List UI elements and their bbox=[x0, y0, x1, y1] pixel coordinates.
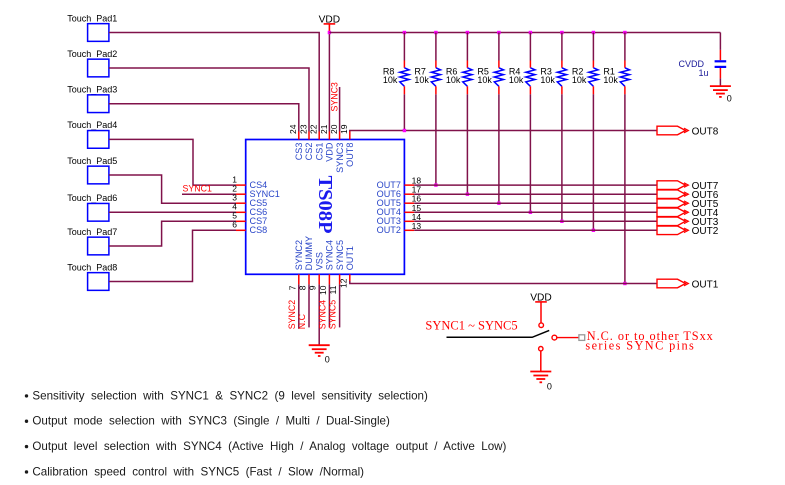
junction R7 bottom bbox=[434, 183, 437, 186]
connector OUT1 bbox=[657, 279, 686, 288]
no-connect square bbox=[579, 335, 585, 341]
wire R7 bottom to OUT net bbox=[435, 94, 437, 185]
wire OUT5 to connector bbox=[414, 202, 657, 204]
junction R4 top at VDD rail bbox=[529, 31, 532, 34]
touch pad TP4 square bbox=[88, 131, 109, 149]
svg-text:VDD: VDD bbox=[325, 142, 335, 162]
junction R1 bottom bbox=[623, 282, 626, 285]
resistor R2 bbox=[589, 68, 598, 87]
bullet note 3 bbox=[25, 445, 28, 448]
pin 19 stub bbox=[349, 132, 351, 140]
touch pad TP2 square bbox=[88, 59, 109, 77]
junction R1 top at VDD rail bbox=[623, 31, 626, 34]
junction R5 bottom bbox=[497, 202, 500, 205]
svg-text:SYNC3: SYNC3 bbox=[329, 82, 339, 111]
svg-text:SYNC1: SYNC1 bbox=[183, 184, 212, 194]
R5 pin top bbox=[498, 61, 500, 68]
R1 pin top bbox=[624, 61, 626, 68]
svg-text:10k: 10k bbox=[603, 75, 618, 85]
wire Touch_Pad3 to CS3 (pin24) bbox=[109, 104, 299, 132]
wire switch pole to N.C. bbox=[557, 337, 579, 339]
svg-text:10k: 10k bbox=[414, 75, 429, 85]
R3 pin top bbox=[561, 61, 563, 68]
R6 pin bottom bbox=[466, 86, 468, 94]
wire pin9 VSS to ground bbox=[318, 284, 320, 345]
wire OUT3 to connector bbox=[414, 220, 657, 222]
svg-text:SYNC4: SYNC4 bbox=[317, 300, 327, 329]
svg-text:SYNC5: SYNC5 bbox=[328, 300, 338, 329]
svg-text:10k: 10k bbox=[509, 75, 524, 85]
svg-text:N.C: N.C bbox=[297, 313, 307, 329]
pin 16 stub bbox=[404, 202, 414, 204]
junction R6 bottom bbox=[466, 193, 469, 196]
junction R3 top at VDD rail bbox=[560, 31, 563, 34]
wire pin8 N.C stub bbox=[308, 284, 310, 327]
svg-text:23: 23 bbox=[298, 124, 308, 134]
svg-text:OUT1: OUT1 bbox=[692, 279, 719, 290]
svg-text:DUMMY: DUMMY bbox=[304, 236, 314, 270]
svg-text:Sensitivity selection with: Sensitivity selection with SYNC1 & SYNC2… bbox=[32, 389, 428, 402]
svg-text:VSS: VSS bbox=[314, 252, 324, 270]
ground VSS bbox=[309, 344, 330, 346]
wire R6 top bbox=[466, 33, 468, 61]
svg-text:SYNC1 ~ SYNC5: SYNC1 ~ SYNC5 bbox=[425, 319, 517, 333]
svg-text:Touch_Pad6: Touch_Pad6 bbox=[67, 193, 117, 203]
svg-text:TS08P: TS08P bbox=[314, 176, 336, 234]
svg-text:21: 21 bbox=[319, 124, 329, 134]
wire R5 top bbox=[498, 33, 500, 61]
junction R5 top at VDD rail bbox=[497, 31, 500, 34]
svg-text:24: 24 bbox=[288, 124, 298, 134]
svg-text:Output mode selection with: Output mode selection with SYNC3 (Single… bbox=[32, 415, 390, 428]
svg-text:Output level selection with: Output level selection with SYNC4 (Activ… bbox=[32, 440, 506, 453]
pin 24 stub bbox=[298, 132, 300, 140]
svg-text:OUT2: OUT2 bbox=[692, 226, 719, 237]
junction R2 top at VDD rail bbox=[592, 31, 595, 34]
svg-text:CS2: CS2 bbox=[304, 143, 314, 161]
svg-text:0: 0 bbox=[547, 381, 552, 391]
svg-text:Touch_Pad7: Touch_Pad7 bbox=[67, 227, 117, 237]
junction R8 top at VDD rail bbox=[403, 31, 406, 34]
wire capacitor to ground bbox=[719, 78, 721, 85]
svg-text:10k: 10k bbox=[477, 75, 492, 85]
junction R4 bottom bbox=[529, 211, 532, 214]
svg-text:19: 19 bbox=[339, 124, 349, 134]
wire Touch_Pad5 to CS5 (pin3) bbox=[109, 175, 236, 203]
resistor R4 bbox=[526, 68, 535, 87]
bullet note 4 bbox=[25, 470, 28, 473]
R1 pin bottom bbox=[624, 86, 626, 94]
pin 2 stub bbox=[236, 193, 246, 195]
connector OUT4 bbox=[657, 208, 686, 217]
svg-text:CS1: CS1 bbox=[314, 143, 324, 161]
junction R7 top at VDD rail bbox=[434, 31, 437, 34]
resistor R7 bbox=[431, 68, 440, 87]
resistor R3 bbox=[557, 68, 566, 87]
wire SYNC3 stub to pin20 bbox=[339, 87, 341, 132]
junction R6 top at VDD rail bbox=[466, 31, 469, 34]
svg-text:10k: 10k bbox=[540, 75, 555, 85]
pin 23 stub bbox=[308, 132, 310, 140]
wire R5 bottom to OUT net bbox=[498, 94, 500, 203]
pin 4 stub bbox=[236, 211, 246, 213]
pin 21 stub bbox=[328, 132, 330, 140]
wire R3 bottom to OUT net bbox=[561, 94, 563, 221]
touch pad TP7 square bbox=[88, 237, 109, 255]
svg-text:0: 0 bbox=[727, 93, 732, 103]
wire R1 bottom to OUT net bbox=[624, 94, 626, 283]
op-amp-style IC U1 TS08P body bbox=[246, 140, 405, 275]
wire R6 bottom to OUT net bbox=[466, 94, 468, 194]
wire pin7 SYNC2 stub bbox=[298, 284, 300, 328]
svg-text:OUT8: OUT8 bbox=[345, 143, 355, 167]
pin 9 stub bbox=[318, 274, 320, 284]
connector OUT7 bbox=[657, 181, 686, 190]
connector OUT2 bbox=[657, 226, 686, 235]
R7 pin top bbox=[435, 61, 437, 68]
wire R7 top bbox=[435, 33, 437, 61]
svg-text:13: 13 bbox=[412, 221, 422, 231]
svg-text:Touch_Pad4: Touch_Pad4 bbox=[67, 120, 117, 130]
wire switch bottom to ground bbox=[540, 351, 542, 371]
svg-text:OUT2: OUT2 bbox=[377, 225, 401, 235]
switch SW1 top contact bbox=[539, 323, 544, 328]
svg-text:7: 7 bbox=[287, 285, 297, 290]
pin 7 stub bbox=[298, 274, 300, 284]
R5 pin bottom bbox=[498, 86, 500, 94]
resistor R1 bbox=[620, 68, 629, 87]
switch SW1 pole contact bbox=[552, 335, 557, 340]
resistor R6 bbox=[463, 68, 472, 87]
wire VDD rail to capacitor bbox=[719, 33, 721, 50]
wire pin11 SYNC5 stub bbox=[339, 284, 341, 327]
R3 pin bottom bbox=[561, 86, 563, 94]
wire pin10 SYNC4 stub bbox=[328, 284, 330, 327]
wire Touch_Pad8 to CS8 (pin6) bbox=[109, 230, 236, 281]
touch pad TP3 square bbox=[88, 95, 109, 113]
svg-text:22: 22 bbox=[309, 124, 319, 134]
wire OUT4 to connector bbox=[414, 211, 657, 213]
pin 8 stub bbox=[308, 274, 310, 284]
svg-text:OUT1: OUT1 bbox=[345, 246, 355, 270]
wire VDD down to pin21 bbox=[328, 33, 330, 132]
connector OUT8 bbox=[657, 126, 686, 135]
svg-text:10k: 10k bbox=[572, 75, 587, 85]
R4 pin bottom bbox=[529, 86, 531, 94]
resistor R5 bbox=[494, 68, 503, 87]
junction R8 bottom bbox=[403, 129, 406, 132]
bullet note 1 bbox=[25, 394, 28, 397]
ground switch bbox=[530, 371, 551, 373]
pin 17 stub bbox=[404, 193, 414, 195]
touch pad TP5 square bbox=[88, 166, 109, 184]
touch pad TP1 square bbox=[88, 24, 109, 42]
wire R4 top bbox=[529, 33, 531, 61]
wire R8 top bbox=[403, 33, 405, 61]
wire Touch_Pad2 to CS2 (pin23) bbox=[109, 68, 309, 132]
wire Touch_Pad7 to CS7 (pin5) bbox=[109, 221, 236, 246]
svg-text:CS8: CS8 bbox=[250, 225, 268, 235]
pin 1 stub bbox=[236, 184, 246, 186]
capacitor C1 pin top bbox=[719, 50, 721, 60]
svg-text:1u: 1u bbox=[699, 68, 709, 78]
touch pad TP6 square bbox=[88, 203, 109, 221]
wire Touch_Pad4 to CS4 (pin1) bbox=[109, 139, 236, 185]
pin 13 stub bbox=[404, 229, 414, 231]
wire OUT2 to connector bbox=[414, 229, 657, 231]
svg-text:CS3: CS3 bbox=[294, 143, 304, 161]
junction R2 bottom bbox=[592, 229, 595, 232]
pin 5 stub bbox=[236, 220, 246, 222]
connector OUT6 bbox=[657, 190, 686, 199]
svg-text:Touch_Pad3: Touch_Pad3 bbox=[67, 84, 117, 94]
svg-text:OUT8: OUT8 bbox=[692, 126, 719, 137]
svg-text:Touch_Pad8: Touch_Pad8 bbox=[67, 262, 117, 272]
svg-text:series SYNC pins: series SYNC pins bbox=[585, 339, 695, 353]
wire pin19 to OUT8 connector bbox=[350, 131, 657, 132]
wire R4 bottom to OUT net bbox=[529, 94, 531, 212]
R2 pin bottom bbox=[592, 86, 594, 94]
switch SW1 bottom contact bbox=[539, 347, 543, 351]
pin 11 stub bbox=[339, 274, 341, 284]
pin 6 stub bbox=[236, 229, 246, 231]
svg-text:SYNC3: SYNC3 bbox=[335, 143, 345, 173]
wire VDD rail bbox=[329, 32, 720, 34]
svg-text:SYNC4: SYNC4 bbox=[325, 240, 335, 270]
junction R3 bottom bbox=[560, 220, 563, 223]
wire OUT7 to connector bbox=[414, 184, 657, 186]
wire R3 top bbox=[561, 33, 563, 61]
svg-text:20: 20 bbox=[329, 124, 339, 134]
connector OUT3 bbox=[657, 217, 686, 226]
svg-text:6: 6 bbox=[232, 220, 237, 230]
wire R8 bottom to OUT net bbox=[403, 94, 405, 130]
svg-text:0: 0 bbox=[325, 355, 330, 365]
svg-text:Calibration speed control w: Calibration speed control with SYNC5 (Fa… bbox=[32, 465, 364, 478]
wire Touch_Pad1 to CS1 (pin22) bbox=[109, 33, 319, 132]
ground CVDD bbox=[710, 85, 731, 87]
R7 pin bottom bbox=[435, 86, 437, 94]
wire Touch_Pad6 to CS6 (pin4) bbox=[109, 211, 236, 213]
svg-text:Touch_Pad1: Touch_Pad1 bbox=[67, 13, 117, 23]
power symbol VDD bar and stem bbox=[324, 23, 336, 25]
pin 12 stub bbox=[349, 274, 351, 281]
power symbol VDD (switch) bar bbox=[535, 301, 547, 303]
svg-text:10k: 10k bbox=[383, 75, 398, 85]
wire R2 top bbox=[592, 33, 594, 61]
switch SW1 blade bbox=[447, 330, 550, 337]
R8 pin top bbox=[403, 61, 405, 68]
svg-text:SYNC2: SYNC2 bbox=[294, 240, 304, 270]
svg-text:Touch_Pad5: Touch_Pad5 bbox=[67, 156, 117, 166]
capacitor C1 pin bottom bbox=[719, 68, 721, 78]
pin 15 stub bbox=[404, 211, 414, 213]
R8 pin bottom bbox=[403, 86, 405, 94]
wire SYNC1 stub to pin2 bbox=[182, 193, 236, 195]
junction VDD rail bbox=[328, 31, 331, 34]
pin 18 stub bbox=[404, 184, 414, 186]
svg-text:SYNC2: SYNC2 bbox=[287, 300, 297, 329]
capacitor C1 CVDD plates bbox=[715, 60, 727, 62]
resistor R8 bbox=[400, 68, 409, 87]
connector OUT5 bbox=[657, 199, 686, 208]
pin 10 stub bbox=[328, 274, 330, 284]
wire R2 bottom to OUT net bbox=[592, 94, 594, 230]
bullet note 2 bbox=[25, 420, 28, 423]
pin 14 stub bbox=[404, 220, 414, 222]
svg-text:SYNC5: SYNC5 bbox=[335, 240, 345, 270]
R2 pin top bbox=[592, 61, 594, 68]
touch pad TP8 square bbox=[88, 273, 109, 291]
svg-text:Touch_Pad2: Touch_Pad2 bbox=[67, 49, 117, 59]
svg-text:10k: 10k bbox=[446, 75, 461, 85]
pin 20 stub bbox=[339, 132, 341, 140]
pin 22 stub bbox=[318, 132, 320, 140]
wire R1 top bbox=[624, 33, 626, 61]
R6 pin top bbox=[466, 61, 468, 68]
pin 3 stub bbox=[236, 202, 246, 204]
R4 pin top bbox=[529, 61, 531, 68]
wire OUT6 to connector bbox=[414, 193, 657, 195]
wire pin12 to OUT1 connector bbox=[350, 281, 657, 284]
